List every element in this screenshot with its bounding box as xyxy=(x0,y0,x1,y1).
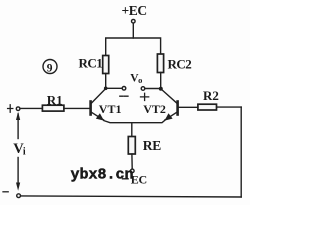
Vi arrow lower segment xyxy=(17,158,19,185)
terminal Vo plus xyxy=(141,87,145,91)
wire RC2 to VT2 collector junction xyxy=(160,73,162,89)
wire right riser xyxy=(240,107,242,197)
svg-text:RC1: RC1 xyxy=(79,55,103,70)
terminal input minus xyxy=(17,194,21,198)
label minus input terminal xyxy=(3,191,8,193)
resistor RC1 xyxy=(103,56,109,74)
transistor VT1 xyxy=(91,89,106,121)
terminal -EC xyxy=(131,169,135,173)
wire riser to R2 xyxy=(216,106,241,108)
svg-text:+EC: +EC xyxy=(122,3,147,18)
svg-text:VT1: VT1 xyxy=(99,102,122,116)
svg-text:RE: RE xyxy=(143,138,161,153)
wire bottom rail xyxy=(21,196,241,197)
wire junction to Vo minus terminal xyxy=(106,87,122,89)
wire R2 to VT2 base xyxy=(179,106,198,108)
svg-text:ybx8.cn: ybx8.cn xyxy=(71,166,134,183)
wire +EC terminal to top rail xyxy=(132,23,134,38)
svg-text:R1: R1 xyxy=(47,93,63,108)
wire shared emitter bus xyxy=(104,121,165,123)
terminal Vo minus xyxy=(122,87,126,91)
wire top rail xyxy=(106,38,161,56)
wire RE to -EC terminal xyxy=(131,154,133,169)
Vi arrow upper segment xyxy=(17,114,19,139)
label plus polarity xyxy=(141,93,149,100)
wire input terminal to R1 xyxy=(20,107,42,109)
svg-text:RC2: RC2 xyxy=(168,56,192,71)
resistor R2 xyxy=(198,104,217,110)
svg-text:9: 9 xyxy=(47,63,53,75)
resistor RC2 xyxy=(157,54,163,73)
node collector VT2 junction xyxy=(159,87,163,91)
svg-text:Vo: Vo xyxy=(130,73,142,85)
transistor VT2 xyxy=(161,89,178,121)
wire RC1 to VT1 collector junction xyxy=(105,74,107,89)
node collector VT1 junction xyxy=(104,87,108,91)
terminal input plus xyxy=(16,107,20,111)
svg-text:VT2: VT2 xyxy=(143,102,166,116)
figure number 9 xyxy=(43,60,57,75)
resistor RE xyxy=(128,137,135,155)
wire junction to Vo plus terminal xyxy=(145,88,161,90)
svg-text:Vi: Vi xyxy=(13,141,26,158)
resistor R1 xyxy=(42,105,64,111)
label plus input terminal xyxy=(8,105,13,112)
svg-text:R2: R2 xyxy=(203,88,219,103)
wire R1 to VT1 base xyxy=(64,107,89,109)
label minus polarity xyxy=(120,95,128,97)
terminal +EC xyxy=(132,19,136,23)
power -EC label xyxy=(123,178,129,180)
wire bus to RE xyxy=(131,123,133,137)
